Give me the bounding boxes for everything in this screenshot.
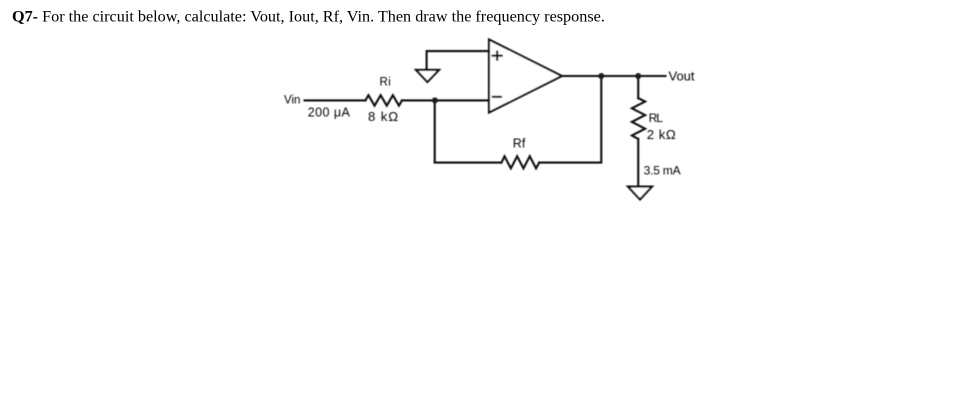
feedback wire right [539, 76, 601, 163]
op-amp plus sign [493, 52, 502, 60]
resistor Ri [365, 95, 402, 106]
wire non-inverting input to ground [427, 51, 489, 70]
svg-text:Vout: Vout [669, 69, 695, 84]
output wire [562, 75, 666, 77]
Vout node dot [635, 73, 641, 79]
op-amp U1 [489, 40, 562, 113]
resistor Rf [501, 156, 539, 168]
wire RL to ground [637, 139, 639, 187]
svg-text:Q7- For the circuit below, cal: Q7- For the circuit below, calculate: Vo… [12, 8, 605, 26]
op-amp minus sign [493, 96, 501, 98]
svg-text:3.5 mA: 3.5 mA [644, 163, 681, 177]
resistor RL [632, 98, 645, 139]
ground (load) [628, 187, 652, 200]
junction node at inverting input [432, 97, 438, 103]
wire Ri to inverting input [402, 99, 489, 101]
svg-text:Rf: Rf [513, 137, 526, 151]
output node dot [598, 73, 604, 79]
feedback wire left [435, 100, 502, 162]
wire Vin to Ri [305, 99, 366, 101]
svg-text:RL: RL [649, 111, 664, 125]
wire Vout node to RL [637, 76, 639, 98]
ground (non-inverting input) [416, 70, 439, 82]
svg-text:2 kΩ: 2 kΩ [647, 127, 676, 142]
svg-text:Ri: Ri [380, 76, 392, 88]
svg-text:Vin: Vin [284, 95, 300, 107]
svg-text:8 kΩ: 8 kΩ [368, 109, 399, 124]
svg-text:200 μA: 200 μA [308, 105, 351, 119]
